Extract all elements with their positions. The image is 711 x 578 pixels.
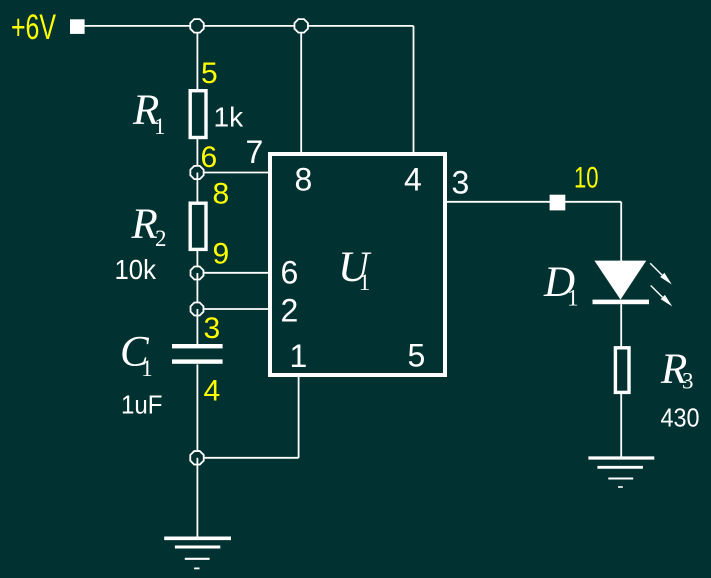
terminal square node 10 bbox=[550, 195, 566, 211]
resistor R3 body bbox=[615, 348, 629, 393]
svg-text:1: 1 bbox=[141, 356, 153, 381]
wire node F to ground bbox=[196, 458, 198, 537]
wire pin8 branch down bbox=[300, 26, 302, 153]
svg-text:430: 430 bbox=[661, 403, 700, 433]
wire R2 to node D bbox=[196, 249, 198, 273]
wire R1 to node C bbox=[196, 137, 198, 173]
wire output down to LED bbox=[620, 202, 622, 261]
svg-text:7: 7 bbox=[246, 134, 264, 170]
wire node E to capacitor bbox=[196, 309, 198, 344]
node A junction circle bbox=[190, 19, 203, 32]
svg-text:1k: 1k bbox=[214, 101, 245, 132]
wire node C to R2 bbox=[196, 173, 198, 205]
wire node D to node E bbox=[196, 273, 198, 309]
node C junction circle bbox=[190, 166, 203, 179]
wire pin1 horizontal bbox=[197, 457, 298, 459]
svg-text:4: 4 bbox=[404, 162, 422, 198]
wire pin3 output bbox=[447, 201, 621, 203]
node D junction circle bbox=[191, 267, 204, 280]
wire capacitor to node F bbox=[196, 364, 198, 458]
svg-text:8: 8 bbox=[213, 178, 230, 211]
svg-text:4: 4 bbox=[204, 375, 221, 408]
svg-text:5: 5 bbox=[201, 57, 218, 90]
wire LED to R3 bbox=[620, 304, 622, 347]
ground right bbox=[588, 458, 654, 487]
resistor R2 body bbox=[190, 203, 206, 249]
wire pin1 vertical bbox=[298, 375, 300, 458]
node E junction circle bbox=[191, 303, 204, 316]
wire pin2 bbox=[197, 308, 270, 310]
svg-text:+6V: +6V bbox=[11, 8, 56, 47]
svg-text:8: 8 bbox=[295, 161, 313, 197]
svg-text:R: R bbox=[131, 201, 158, 248]
ground left bbox=[164, 538, 231, 568]
svg-text:6: 6 bbox=[281, 255, 299, 291]
wire top rail bbox=[85, 25, 414, 27]
LED arrow 1 bbox=[650, 263, 672, 284]
LED arrow 2 bbox=[651, 286, 673, 307]
capacitor C1 top plate bbox=[172, 344, 223, 348]
svg-text:1: 1 bbox=[154, 114, 166, 139]
svg-text:1: 1 bbox=[359, 270, 371, 295]
wire pin4 branch down bbox=[413, 26, 415, 153]
wire VCC branch down to R1 bbox=[196, 26, 198, 92]
node B junction circle bbox=[294, 19, 307, 32]
svg-text:9: 9 bbox=[213, 238, 230, 271]
svg-text:3: 3 bbox=[452, 164, 470, 200]
svg-text:5: 5 bbox=[408, 337, 426, 373]
svg-text:10: 10 bbox=[574, 161, 599, 194]
svg-text:1uF: 1uF bbox=[121, 390, 163, 420]
svg-text:10k: 10k bbox=[115, 254, 157, 285]
capacitor C1 bottom plate bbox=[172, 359, 223, 363]
svg-text:1: 1 bbox=[567, 286, 579, 311]
svg-text:3: 3 bbox=[682, 369, 694, 394]
node F junction circle bbox=[190, 451, 203, 464]
IC U1 555 timer box bbox=[270, 154, 445, 375]
terminal square +6V bbox=[70, 19, 85, 34]
wire pin6 bbox=[197, 272, 270, 274]
svg-text:1: 1 bbox=[290, 338, 308, 374]
svg-text:2: 2 bbox=[281, 293, 299, 329]
wire R3 to ground bbox=[620, 394, 622, 457]
svg-text:2: 2 bbox=[155, 226, 167, 251]
svg-text:3: 3 bbox=[204, 312, 221, 345]
LED D1 cathode bar bbox=[593, 300, 650, 305]
resistor R1 body bbox=[190, 91, 206, 138]
LED D1 triangle bbox=[594, 261, 646, 300]
wire pin7 bbox=[197, 172, 270, 174]
